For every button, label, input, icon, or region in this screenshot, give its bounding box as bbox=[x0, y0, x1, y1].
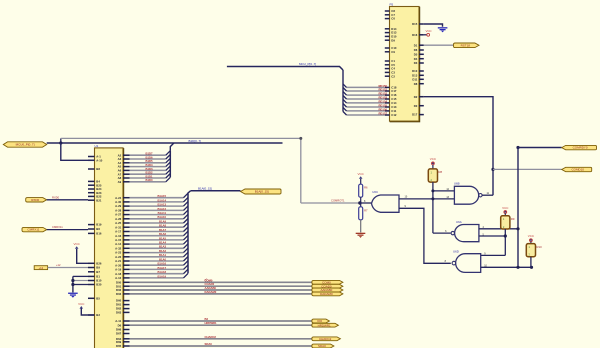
svg-text:B1D2: B1D2 bbox=[145, 171, 153, 175]
wire D16 to VCC bbox=[424, 34, 427, 36]
svg-text:B1A13: B1A13 bbox=[157, 203, 166, 207]
svg-text:U6B: U6B bbox=[454, 182, 460, 186]
svg-text:CMRX11: CMRX11 bbox=[52, 225, 63, 229]
connector/IC P5 top bbox=[390, 7, 420, 122]
svg-text:B1A11: B1A11 bbox=[158, 211, 167, 215]
svg-text:B1D0: B1D0 bbox=[145, 178, 153, 182]
IC U1 (left, runs off bottom) bbox=[95, 149, 124, 348]
wire AADAB0 bbox=[130, 289, 312, 291]
wire vertical right net bbox=[517, 148, 519, 268]
wire R7 to ground bbox=[360, 220, 362, 233]
wire RD152 bbox=[347, 94, 385, 96]
svg-text:C9: C9 bbox=[391, 50, 395, 54]
wire to U6A output bbox=[433, 232, 451, 234]
svg-text:U6D: U6D bbox=[453, 249, 459, 253]
svg-text:B1A18: B1A18 bbox=[157, 270, 166, 274]
port SDA0 bbox=[312, 344, 334, 348]
svg-text:D8: D8 bbox=[414, 82, 418, 86]
wire COM0 bbox=[130, 281, 312, 283]
wire to port COMD10 bbox=[493, 168, 562, 170]
svg-text:B8: B8 bbox=[96, 167, 100, 171]
svg-text:HRDWR1: HRDWR1 bbox=[205, 321, 218, 325]
VCC circle R8 bbox=[432, 162, 435, 165]
svg-text:D16: D16 bbox=[412, 33, 418, 37]
svg-text:B1A12: B1A12 bbox=[157, 207, 166, 211]
wire RD156 bbox=[347, 110, 385, 112]
wire COMROT vertical bbox=[300, 138, 302, 203]
svg-text:B1A0: B1A0 bbox=[159, 257, 167, 261]
svg-text:B1A4: B1A4 bbox=[159, 241, 167, 245]
port HRDWR1 bbox=[312, 323, 339, 327]
svg-text:R9: R9 bbox=[511, 217, 515, 221]
bus collector group1 bbox=[169, 151, 171, 178]
svg-text:B1D4: B1D4 bbox=[145, 163, 153, 167]
wire COMROT top run bbox=[61, 137, 301, 139]
junction bbox=[516, 266, 519, 269]
wire B1A4 bbox=[130, 243, 184, 245]
svg-text:C2: C2 bbox=[391, 74, 395, 78]
svg-text:B7: B7 bbox=[96, 270, 100, 274]
wire B1A2 bbox=[130, 252, 184, 254]
svg-text:D65: D65 bbox=[116, 344, 122, 348]
svg-text:SDA0: SDA0 bbox=[205, 342, 213, 346]
svg-text:MCU0_P[0..7]: MCU0_P[0..7] bbox=[16, 143, 35, 147]
wire B1A8 bbox=[130, 226, 184, 228]
svg-text:B21: B21 bbox=[96, 198, 102, 202]
svg-text:B1D7: B1D7 bbox=[145, 152, 153, 156]
port IO0 bbox=[312, 319, 330, 323]
nand gate U6D (mirrored) bbox=[456, 254, 481, 273]
svg-text:B1A7: B1A7 bbox=[159, 228, 167, 232]
wire B1D3 bbox=[130, 169, 166, 171]
svg-text:B1D3: B1D3 bbox=[145, 167, 153, 171]
wire VCC to pin B3 bbox=[81, 308, 94, 315]
svg-text:D1: D1 bbox=[414, 43, 418, 47]
U1 left pins bbox=[88, 156, 95, 158]
port CMRX11 bbox=[22, 227, 47, 231]
svg-text:8: 8 bbox=[445, 260, 447, 263]
svg-text:COMROT1: COMROT1 bbox=[331, 198, 345, 202]
port B1A[0..15] bbox=[241, 189, 282, 194]
wire B1A10 bbox=[130, 218, 184, 220]
ground (blue) left bbox=[68, 293, 78, 294]
port AADAB0 bbox=[312, 288, 343, 292]
wire B1A9 bbox=[130, 222, 184, 224]
wire R8 down bbox=[432, 182, 434, 233]
svg-text:RXD0: RXD0 bbox=[31, 198, 39, 202]
svg-text:A-10: A-10 bbox=[96, 158, 103, 162]
wire R10 down bbox=[530, 257, 532, 268]
wire to pin A-10 bbox=[61, 143, 95, 160]
svg-text:RD151: RD151 bbox=[378, 87, 387, 91]
power +12 box bbox=[34, 266, 47, 270]
wire B1A12 bbox=[130, 209, 184, 211]
svg-text:B1A2: B1A2 bbox=[159, 249, 167, 253]
svg-text:RD154: RD154 bbox=[378, 99, 387, 103]
wire RD155 bbox=[347, 106, 385, 108]
junction bbox=[504, 234, 507, 237]
svg-text:VCC: VCC bbox=[358, 172, 365, 176]
junction conn1 bbox=[516, 146, 519, 149]
svg-text:A-12: A-12 bbox=[115, 276, 122, 280]
svg-text:DADAM0: DADAM0 bbox=[320, 292, 333, 296]
svg-text:CHADC2: CHADC2 bbox=[319, 337, 332, 341]
resistor R10 bbox=[526, 244, 535, 257]
svg-text:D03: D03 bbox=[116, 292, 122, 296]
svg-text:U6C: U6C bbox=[372, 190, 378, 194]
wire B1D2 bbox=[130, 173, 166, 175]
svg-text:B1D5: B1D5 bbox=[145, 159, 153, 163]
port RST18 bbox=[454, 43, 480, 48]
U1 lower long wires bbox=[123, 320, 130, 322]
svg-text:B1D6: B1D6 bbox=[145, 155, 153, 159]
svg-text:D6: D6 bbox=[118, 323, 122, 327]
wire U6A in1 bbox=[479, 228, 518, 230]
ground (blue) near P5 bbox=[438, 27, 448, 28]
svg-text:D67: D67 bbox=[116, 332, 122, 336]
svg-text:RD153: RD153 bbox=[378, 95, 387, 99]
wire RD154 bbox=[347, 102, 385, 104]
wire COAD0 bbox=[130, 285, 312, 287]
wire B2 bbox=[130, 320, 312, 322]
wire B1D7 bbox=[130, 154, 166, 156]
wire B1A14 bbox=[130, 201, 184, 203]
port MCU0_P bbox=[3, 142, 46, 147]
port DADAM0 bbox=[312, 292, 343, 296]
wire RXD0 bbox=[47, 199, 88, 201]
wire RD157 bbox=[347, 114, 385, 116]
svg-text:R6: R6 bbox=[364, 186, 368, 190]
wire VCC to pin B26 bbox=[77, 249, 88, 263]
svg-text:10: 10 bbox=[405, 196, 408, 199]
svg-text:P5: P5 bbox=[390, 3, 394, 7]
svg-text:RD155: RD155 bbox=[378, 103, 387, 107]
svg-text:U6A: U6A bbox=[456, 220, 462, 224]
VCC circle R10 bbox=[530, 239, 533, 242]
wire B1A bus to port bbox=[191, 190, 241, 192]
wire to port COMRDY0 bbox=[518, 147, 562, 149]
port COMRDY0 bbox=[562, 145, 597, 149]
wire RD153 bbox=[347, 98, 385, 100]
svg-text:B19: B19 bbox=[96, 223, 102, 227]
VCC circle R9 bbox=[504, 211, 507, 214]
P5 right pins bbox=[419, 23, 424, 25]
svg-text:B1A6: B1A6 bbox=[159, 232, 167, 236]
svg-text:CMRX11: CMRX11 bbox=[27, 228, 39, 232]
U1 right stub pins bbox=[123, 300, 130, 302]
wire +12 bbox=[48, 267, 88, 269]
wire R9 down bbox=[504, 229, 506, 255]
svg-text:D17: D17 bbox=[412, 113, 418, 117]
svg-text:D9: D9 bbox=[391, 38, 395, 42]
nand gate U6A (mirrored) bbox=[455, 225, 479, 242]
svg-text:D64: D64 bbox=[116, 337, 122, 341]
wire MCU_P horizontal bbox=[227, 67, 343, 71]
wire RD150 bbox=[347, 86, 385, 88]
svg-text:RST18: RST18 bbox=[461, 43, 471, 47]
svg-text:R7: R7 bbox=[364, 208, 368, 212]
svg-text:DADAM0: DADAM0 bbox=[205, 290, 217, 294]
svg-text:B1D1: B1D1 bbox=[145, 174, 153, 178]
svg-text:COM0: COM0 bbox=[205, 278, 213, 282]
resistor R6 bbox=[359, 184, 363, 197]
svg-text:B1A8: B1A8 bbox=[159, 224, 167, 228]
port RXD0 bbox=[26, 198, 47, 202]
wire DADAM0 bbox=[130, 293, 312, 295]
svg-text:D5: D5 bbox=[414, 52, 418, 56]
port COMD10 bbox=[562, 167, 592, 171]
svg-text:R8: R8 bbox=[439, 170, 443, 174]
U1 right pins A2..A9 with wires bbox=[123, 154, 130, 156]
svg-text:C12: C12 bbox=[391, 113, 397, 117]
wire B1A17 bbox=[130, 268, 184, 270]
svg-text:VCC: VCC bbox=[430, 157, 437, 161]
svg-text:B1A19: B1A19 bbox=[157, 274, 166, 278]
svg-text:COMRDY0: COMRDY0 bbox=[573, 146, 588, 150]
wire to U6B pin12 bbox=[433, 190, 455, 192]
wire B1D6 bbox=[130, 158, 166, 160]
svg-text:B30: B30 bbox=[96, 283, 102, 287]
svg-text:B5: B5 bbox=[96, 296, 100, 300]
junction bbox=[431, 197, 434, 200]
wire B1A16 bbox=[130, 264, 184, 266]
svg-text:COMD10: COMD10 bbox=[571, 168, 584, 172]
wire U6A in2 bbox=[479, 235, 505, 237]
svg-text:B1A[0..15]: B1A[0..15] bbox=[255, 190, 269, 194]
wire U6C pin9 to U6D bbox=[399, 208, 451, 263]
resistor R9 bbox=[501, 216, 510, 229]
resistor R8 bbox=[428, 169, 437, 182]
wire HRDWR1 bbox=[130, 324, 312, 326]
resistor R7 bbox=[359, 207, 363, 220]
wire D2 down right side bbox=[424, 97, 493, 196]
U1 right pins A-24.. with wires bbox=[123, 197, 130, 199]
VCC circle pin bbox=[427, 33, 430, 36]
wire branch up bbox=[60, 138, 62, 143]
wire B1A18 bbox=[130, 273, 184, 275]
svg-text:B6: B6 bbox=[96, 227, 100, 231]
wire U6B output bbox=[482, 194, 493, 196]
port COAD0 bbox=[312, 284, 343, 288]
wire B1A0 bbox=[130, 260, 184, 262]
svg-text:B1A3: B1A3 bbox=[159, 245, 167, 249]
svg-text:B1A[0..15]: B1A[0..15] bbox=[198, 186, 212, 190]
P5 left pins C18..C12 with net wires bbox=[385, 86, 390, 88]
wire COMROT to gate node bbox=[301, 202, 360, 204]
svg-text:B1D[0..7]: B1D[0..7] bbox=[189, 139, 202, 143]
svg-text:RD150: RD150 bbox=[378, 84, 387, 88]
nand gate U6B bbox=[454, 186, 478, 204]
wire B1A7 bbox=[130, 231, 184, 233]
wire D15 to ground bbox=[424, 24, 443, 27]
junction bbox=[71, 279, 74, 282]
wire B1A1 bbox=[130, 256, 184, 258]
wire B1D5 bbox=[130, 162, 166, 164]
junction bbox=[59, 141, 62, 144]
svg-text:B16: B16 bbox=[96, 232, 102, 236]
svg-text:C6: C6 bbox=[391, 17, 395, 21]
wire U6D in1 bbox=[481, 254, 505, 256]
wire B1A15 bbox=[130, 197, 184, 199]
resistor R7 (pull-down, blue style) bbox=[360, 203, 362, 207]
wire D1 to port RST18 bbox=[424, 44, 454, 46]
svg-text:CHADC2: CHADC2 bbox=[205, 335, 217, 339]
svg-text:HRDWR1: HRDWR1 bbox=[318, 323, 331, 327]
svg-text:R10: R10 bbox=[537, 245, 543, 249]
bus collector group2 bbox=[187, 193, 189, 273]
wire B1A5 bbox=[130, 239, 184, 241]
svg-text:RXD0: RXD0 bbox=[52, 196, 60, 200]
wire CHADC2 bbox=[130, 338, 312, 340]
svg-text:B1A5: B1A5 bbox=[159, 236, 167, 240]
svg-text:A9: A9 bbox=[118, 180, 122, 184]
svg-text:U1: U1 bbox=[95, 144, 99, 148]
wire SDA0 bbox=[130, 345, 312, 347]
wire B1D4 bbox=[130, 166, 166, 168]
wire B1D1 bbox=[130, 177, 166, 179]
op-amp U6C (mirrored gate) bbox=[372, 195, 400, 212]
ground (red) bbox=[356, 233, 366, 234]
wire CMRX11 bbox=[47, 229, 88, 231]
junction bbox=[516, 227, 519, 230]
svg-text:AADAB0: AADAB0 bbox=[205, 286, 217, 290]
svg-text:B1A16: B1A16 bbox=[157, 262, 166, 266]
P5 left pins upper bbox=[385, 10, 390, 12]
junction bbox=[530, 266, 533, 269]
svg-text:D2: D2 bbox=[414, 95, 418, 99]
wire U6D in2 bbox=[481, 266, 532, 268]
ground net left bbox=[72, 276, 74, 292]
wire B1A6 bbox=[130, 235, 184, 237]
wire MCU0_P horizontal bbox=[47, 142, 283, 144]
svg-text:+12: +12 bbox=[56, 263, 61, 267]
svg-text:D11: D11 bbox=[412, 77, 417, 81]
svg-text:RD156: RD156 bbox=[378, 107, 387, 111]
svg-text:RD157: RD157 bbox=[378, 111, 387, 115]
wire MCU_P bus vertical bbox=[342, 70, 344, 112]
junction bbox=[431, 189, 434, 192]
wire B1A13 bbox=[130, 205, 184, 207]
port CHADC2 bbox=[312, 337, 341, 341]
svg-text:11: 11 bbox=[487, 192, 490, 195]
svg-text:D3: D3 bbox=[414, 61, 418, 65]
wire B1D0 bbox=[130, 181, 166, 183]
svg-text:VCC: VCC bbox=[426, 29, 432, 33]
junction node gate1 bbox=[358, 201, 361, 204]
svg-text:+12: +12 bbox=[39, 266, 44, 270]
svg-text:B1A15: B1A15 bbox=[157, 194, 166, 198]
svg-text:D0: D0 bbox=[414, 104, 418, 108]
svg-text:VCC: VCC bbox=[502, 206, 509, 210]
svg-text:B1A1: B1A1 bbox=[159, 253, 167, 257]
wire B1A11 bbox=[130, 214, 184, 216]
svg-text:COAD0: COAD0 bbox=[205, 282, 215, 286]
junction D2 net bbox=[491, 168, 494, 171]
wire B1A19 bbox=[130, 277, 184, 279]
svg-text:B3: B3 bbox=[96, 313, 100, 317]
wire B1A3 bbox=[130, 247, 184, 249]
wire U6C pin10 to U6B pin13 bbox=[399, 198, 454, 200]
svg-text:B1A14: B1A14 bbox=[157, 198, 166, 202]
svg-text:VCC: VCC bbox=[78, 302, 85, 306]
wire node to gate U6C output bbox=[360, 202, 372, 204]
svg-text:VCC: VCC bbox=[528, 234, 535, 238]
svg-text:B1A10: B1A10 bbox=[157, 215, 166, 219]
corner dot bbox=[299, 137, 302, 140]
svg-text:6: 6 bbox=[445, 230, 447, 233]
svg-text:VCC: VCC bbox=[74, 242, 81, 246]
svg-text:B1A17: B1A17 bbox=[157, 266, 166, 270]
junction bbox=[71, 283, 74, 286]
svg-text:MCU_P[0..7]: MCU_P[0..7] bbox=[299, 62, 316, 66]
svg-text:D63: D63 bbox=[116, 311, 122, 315]
svg-text:RD152: RD152 bbox=[378, 92, 387, 96]
svg-text:D15: D15 bbox=[412, 22, 418, 26]
svg-text:B1A9: B1A9 bbox=[159, 219, 167, 223]
wire R6 to node bbox=[360, 197, 362, 203]
svg-text:SDA0: SDA0 bbox=[318, 344, 326, 348]
wire RD151 bbox=[347, 90, 385, 92]
svg-text:B2: B2 bbox=[205, 317, 209, 321]
port COM0 bbox=[312, 280, 343, 284]
